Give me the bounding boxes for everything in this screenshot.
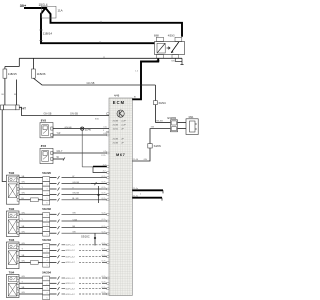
svg-text:5: 5 bbox=[47, 265, 48, 267]
svg-text:11A: 11A bbox=[58, 8, 63, 12]
svg-text:5: 5 bbox=[47, 198, 48, 200]
svg-text:GN: GN bbox=[22, 213, 26, 215]
svg-text:M67: M67 bbox=[116, 152, 125, 157]
svg-text:11B/15: 11B/15 bbox=[8, 72, 17, 76]
svg-text:5: 5 bbox=[47, 297, 48, 299]
svg-text:4: 4 bbox=[47, 229, 48, 231]
svg-text:3: 3 bbox=[47, 189, 48, 191]
svg-text:1: 1 bbox=[47, 215, 48, 217]
svg-text:6CFL-1.2: 6CFL-1.2 bbox=[66, 245, 76, 247]
svg-text:5: 5 bbox=[47, 234, 48, 236]
svg-text:6CFL-1.2: 6CFL-1.2 bbox=[66, 278, 76, 280]
svg-text:GN: GN bbox=[22, 182, 26, 184]
svg-text:54/204: 54/204 bbox=[42, 271, 51, 275]
svg-text:GN: GN bbox=[72, 213, 76, 215]
svg-text:6CFL-3.2: 6CFL-3.2 bbox=[66, 288, 76, 290]
svg-text:6CFL-2.2: 6CFL-2.2 bbox=[66, 250, 76, 252]
svg-text:4/50/3: 4/50/3 bbox=[168, 34, 175, 37]
svg-text:GN: GN bbox=[22, 292, 26, 294]
svg-text:2: 2 bbox=[47, 283, 48, 285]
svg-text:11B/14: 11B/14 bbox=[43, 32, 53, 36]
svg-text:20/JB: 20/JB bbox=[113, 121, 119, 123]
svg-text:4: 4 bbox=[47, 293, 48, 295]
svg-text:GN: GN bbox=[144, 159, 148, 161]
svg-text:BL-SB: BL-SB bbox=[72, 198, 79, 200]
svg-text:6: 6 bbox=[47, 203, 48, 205]
svg-text:21.40: 21.40 bbox=[133, 159, 139, 161]
svg-text:ECM: ECM bbox=[113, 100, 125, 105]
svg-text:21.4x: 21.4x bbox=[133, 196, 139, 198]
svg-text:GN: GN bbox=[72, 232, 76, 234]
svg-text:6CFL-4.2: 6CFL-4.2 bbox=[66, 294, 76, 296]
svg-text:4: 4 bbox=[47, 193, 48, 195]
svg-text:15/3-4: 15/3-4 bbox=[39, 3, 48, 7]
svg-text:21.4x: 21.4x bbox=[133, 188, 139, 190]
svg-text:6CFL-4.2: 6CFL-4.2 bbox=[66, 262, 76, 264]
svg-text:2-2F: 2-2F bbox=[121, 121, 126, 123]
svg-text:GN-SB: GN-SB bbox=[70, 113, 78, 116]
svg-text:GN-Y: GN-Y bbox=[57, 150, 63, 153]
svg-text:GN-SB: GN-SB bbox=[44, 113, 52, 116]
svg-text:1: 1 bbox=[47, 246, 48, 248]
svg-text:GN: GN bbox=[22, 261, 26, 263]
svg-text:2-2F: 2-2F bbox=[121, 125, 126, 127]
svg-text:6CFL-2.2: 6CFL-2.2 bbox=[66, 283, 76, 285]
svg-text:54/203: 54/203 bbox=[42, 238, 51, 242]
svg-text:GN-SB: GN-SB bbox=[72, 193, 79, 195]
svg-text:4: 4 bbox=[47, 260, 48, 262]
svg-text:1: 1 bbox=[47, 279, 48, 281]
svg-text:3: 3 bbox=[47, 225, 48, 227]
svg-text:Y-R: Y-R bbox=[57, 132, 61, 135]
svg-text:3: 3 bbox=[47, 288, 48, 290]
svg-text:GN-SB: GN-SB bbox=[72, 182, 79, 184]
svg-text:Y-SB: Y-SB bbox=[72, 219, 77, 221]
svg-text:S4/0N: S4/0N bbox=[154, 144, 161, 148]
svg-text:GN: GN bbox=[22, 193, 26, 195]
svg-text:GN: GN bbox=[22, 276, 26, 278]
svg-text:8/88: 8/88 bbox=[154, 34, 159, 37]
svg-text:GN: GN bbox=[22, 231, 26, 233]
svg-text:2: 2 bbox=[47, 184, 48, 186]
svg-text:3/91: 3/91 bbox=[188, 115, 194, 119]
svg-text:9/42BM: 9/42BM bbox=[167, 116, 176, 120]
svg-text:2: 2 bbox=[47, 220, 48, 222]
svg-text:GN-SB: GN-SB bbox=[65, 127, 72, 129]
svg-text:54/202: 54/202 bbox=[42, 207, 51, 211]
svg-text:4: 4 bbox=[103, 130, 104, 132]
svg-text:3: 3 bbox=[47, 256, 48, 258]
svg-text:7/92: 7/92 bbox=[9, 171, 15, 175]
svg-text:54/220: 54/220 bbox=[42, 171, 51, 175]
svg-text:S3/20C: S3/20C bbox=[81, 234, 90, 238]
svg-text:7/93: 7/93 bbox=[9, 238, 15, 242]
svg-text:4/46: 4/46 bbox=[114, 94, 120, 98]
svg-text:10/10: 10/10 bbox=[113, 128, 119, 130]
svg-text:11B/26: 11B/26 bbox=[37, 72, 46, 76]
svg-text:20/JB: 20/JB bbox=[113, 142, 119, 144]
svg-text:64/NU: 64/NU bbox=[159, 101, 166, 105]
svg-text:8Y8: 8Y8 bbox=[41, 144, 47, 148]
svg-text:GN-SB: GN-SB bbox=[87, 82, 95, 85]
svg-text:31/46: 31/46 bbox=[85, 128, 92, 131]
svg-text:8Y8: 8Y8 bbox=[41, 118, 47, 122]
svg-text:20/JB: 20/JB bbox=[113, 139, 119, 141]
svg-text:7/94: 7/94 bbox=[9, 271, 15, 275]
svg-text:2: 2 bbox=[47, 251, 48, 253]
svg-text:1: 1 bbox=[47, 179, 48, 181]
svg-text:20/JB: 20/JB bbox=[113, 125, 119, 127]
svg-text:6CFL-3.2: 6CFL-3.2 bbox=[66, 256, 76, 258]
svg-text:GN-SB: GN-SB bbox=[156, 121, 163, 123]
svg-text:7/92: 7/92 bbox=[9, 207, 15, 211]
svg-text:GN: GN bbox=[151, 127, 155, 129]
svg-text:GN: GN bbox=[22, 243, 26, 245]
